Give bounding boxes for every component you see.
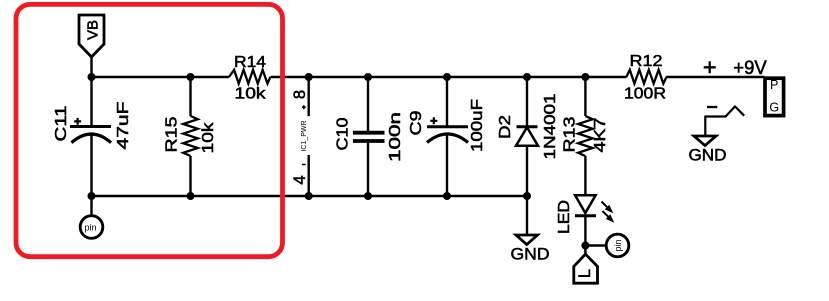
net label IC1_PWR — [299, 120, 308, 152]
svg-text:100n: 100n — [387, 112, 404, 162]
svg-text:C10: C10 — [335, 117, 352, 150]
svg-text:R15: R15 — [163, 116, 180, 152]
wire top bus left — [92, 76, 230, 78]
svg-text:4: 4 — [291, 175, 309, 184]
junction LED cathode node — [581, 242, 589, 250]
connector J1 P/G — [765, 78, 784, 116]
pin circle lower left — [80, 216, 103, 239]
junction bottom C11 — [88, 192, 96, 200]
junction bottom C9 — [443, 192, 451, 200]
svg-text:+9V: +9V — [733, 58, 767, 79]
wire top bus right — [666, 76, 765, 78]
junction top R13 — [581, 73, 589, 81]
wire LED node to pin — [585, 244, 606, 246]
resistor R12 — [624, 53, 667, 103]
resistor R15 — [163, 116, 217, 156]
supply flag VB — [79, 15, 104, 57]
plus mark supply — [704, 61, 716, 73]
svg-text:LED: LED — [556, 200, 573, 234]
svg-text:R12: R12 — [630, 53, 663, 70]
wire jack switch to GND — [705, 106, 744, 136]
capacitor C10 — [335, 112, 404, 162]
svg-text:100R: 100R — [624, 86, 666, 103]
wire bottom bus — [92, 195, 528, 197]
svg-text:10k: 10k — [200, 121, 217, 153]
pin number 8 — [291, 90, 309, 99]
svg-text:L: L — [576, 269, 594, 278]
junction top IC1_PWR — [305, 73, 313, 81]
junction bottom R15 — [187, 192, 195, 200]
minus mark supply — [707, 106, 717, 108]
svg-text:GND: GND — [689, 146, 727, 165]
junction top R15 — [187, 73, 195, 81]
svg-text:R14: R14 — [234, 54, 266, 71]
svg-text:GND: GND — [511, 245, 550, 264]
svg-text:10k: 10k — [235, 86, 267, 103]
pin circle LED — [606, 234, 629, 257]
svg-text:G: G — [769, 101, 779, 115]
wire top bus middle — [271, 76, 627, 78]
svg-text:1N4001: 1N4001 — [542, 93, 559, 159]
junction bottom D2 — [523, 192, 531, 200]
wire C11 column — [90, 77, 92, 216]
ground symbol GND right — [689, 136, 727, 165]
junction bottom IC1_PWR — [305, 192, 313, 200]
svg-text:100uF: 100uF — [469, 99, 486, 152]
net label +9V — [733, 58, 767, 79]
wire R15 column — [189, 77, 191, 196]
wire IC1_PWR column pin 4 — [308, 155, 310, 196]
svg-text:VB: VB — [85, 20, 102, 40]
diode D2 — [497, 93, 559, 159]
minus mark IC1_PWR — [302, 164, 306, 166]
wire C10 column — [367, 77, 369, 196]
wire D2 column — [526, 77, 528, 235]
svg-text:8: 8 — [291, 90, 309, 99]
ground symbol GND under D2 — [511, 235, 550, 264]
svg-text:pin: pin — [84, 223, 96, 233]
junction top D2 — [523, 73, 531, 81]
junction top C9 — [443, 73, 451, 81]
svg-text:pin: pin — [613, 239, 623, 251]
annotation highlight box — [16, 4, 283, 256]
capacitor C9 — [408, 99, 486, 152]
junction top C10 — [364, 73, 372, 81]
svg-text:C9: C9 — [408, 110, 425, 135]
junction top VB — [88, 73, 96, 81]
resistor R13 — [562, 116, 610, 156]
svg-text:P: P — [770, 78, 778, 92]
pin number 4 — [291, 175, 309, 184]
wire C9 column — [446, 77, 448, 196]
wire VB to top bus — [90, 57, 92, 77]
wire IC1_PWR column pin 8 — [308, 77, 310, 116]
svg-text:R13: R13 — [562, 116, 579, 152]
svg-text:47uF: 47uF — [115, 101, 132, 149]
svg-text:4K7: 4K7 — [592, 117, 609, 152]
capacitor C11 — [53, 101, 132, 149]
svg-text:C11: C11 — [53, 105, 70, 141]
svg-text:IC1_PWR: IC1_PWR — [299, 120, 308, 152]
junction bottom C10 — [364, 192, 372, 200]
net flag L — [574, 254, 598, 283]
plus mark IC1_PWR — [302, 105, 306, 109]
wire R13 LED column — [584, 77, 586, 255]
LED — [556, 195, 613, 234]
resistor R14 — [229, 54, 270, 103]
svg-text:D2: D2 — [497, 115, 514, 139]
